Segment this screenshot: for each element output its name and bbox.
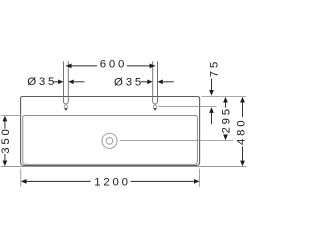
dimension 1200 left arrow <box>21 179 27 184</box>
dimension diam35 right tail <box>141 81 148 83</box>
dimension 350 up arrow <box>3 116 8 122</box>
extension line top edge right <box>202 96 247 98</box>
extension line faucet hole level right <box>158 106 216 108</box>
washbasin inner rim outline <box>23 116 198 165</box>
dimension 600 left arrow <box>66 64 72 69</box>
svg-text:Ø35: Ø35 <box>114 76 144 88</box>
dimension diam35 left incoming arrow <box>58 80 63 85</box>
drain outer circle <box>102 133 117 148</box>
faucet hole right circle <box>153 105 157 109</box>
washbasin outer body outline <box>21 97 200 166</box>
svg-text:480: 480 <box>236 118 248 145</box>
extension line inner rim left <box>1 115 22 117</box>
drain inner circle <box>106 137 113 144</box>
faucet hole left arrow <box>64 108 67 110</box>
svg-text:1200: 1200 <box>94 177 131 189</box>
dimension 480 down arrow <box>240 161 245 167</box>
svg-text:600: 600 <box>100 59 127 71</box>
dimension 1200 right arrow <box>194 179 200 184</box>
extension line 1200 left vertical <box>20 169 22 187</box>
dimension diam35 right outgoing arrow <box>157 80 162 85</box>
dimension 75 upper shaft and down arrow <box>211 79 213 91</box>
faucet hole left walls <box>64 61 69 104</box>
dimension 480 up arrow <box>240 97 245 103</box>
extension line bottom full width <box>1 165 247 167</box>
dimension 295 down arrow <box>223 135 228 141</box>
faucet hole left circle <box>64 105 68 109</box>
dimension 75 lower up arrow and shaft <box>209 107 214 113</box>
dimension 350 down arrow <box>3 161 8 167</box>
svg-text:Ø35: Ø35 <box>27 76 57 88</box>
svg-text:350: 350 <box>0 126 12 153</box>
extension line 1200 right vertical <box>199 169 201 187</box>
dimension diam35 left outgoing arrow <box>68 80 73 85</box>
dimension diam35 right incoming arrow <box>147 80 152 85</box>
extension line drain level right <box>120 140 233 142</box>
dimension 295 up arrow <box>223 97 228 103</box>
dimension 600 line <box>66 65 97 67</box>
dimension 600 right arrow <box>150 64 156 69</box>
dimension diam35 left tail <box>53 81 58 83</box>
svg-text:295: 295 <box>220 106 232 133</box>
svg-text:75: 75 <box>209 59 221 77</box>
faucet hole right arrow <box>153 108 156 110</box>
faucet hole right walls <box>153 61 158 104</box>
